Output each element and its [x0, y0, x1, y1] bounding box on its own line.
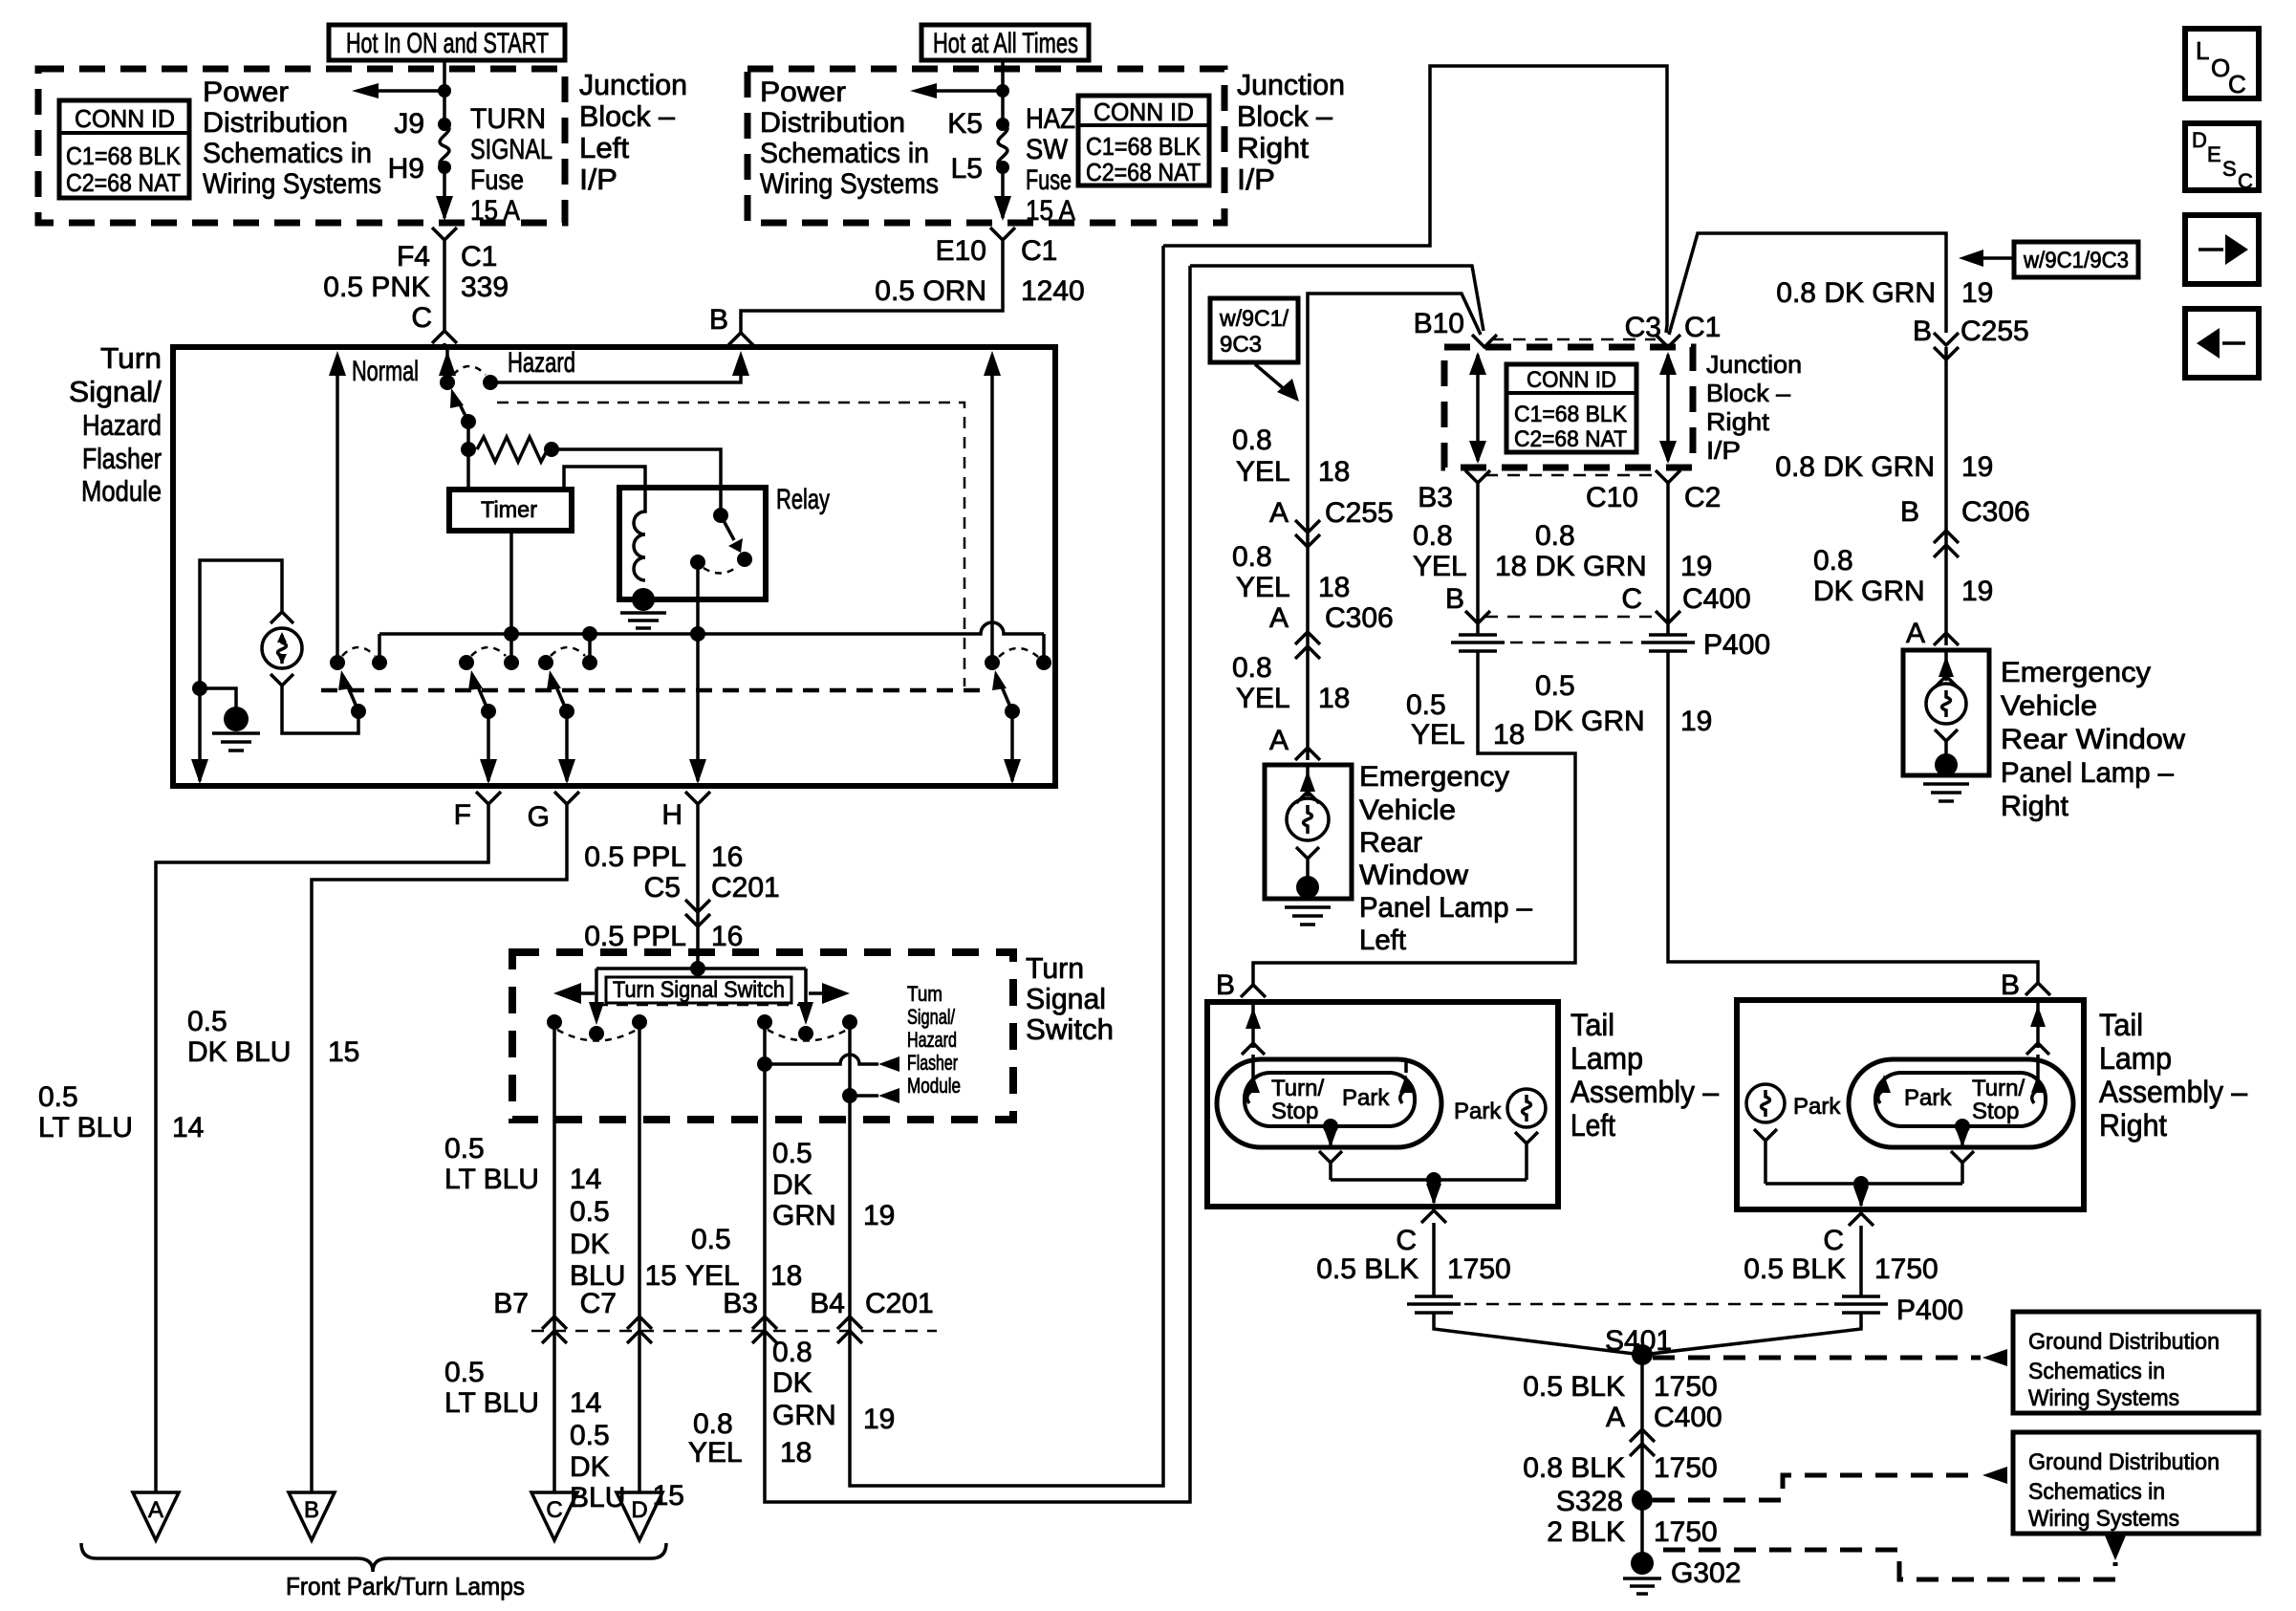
CONN ID table (right junction block) [1078, 96, 1209, 186]
left direction arrow [553, 983, 581, 1004]
connector C201 chevrons wire B3 [752, 1317, 777, 1343]
turn switch right: contact B3 [757, 1014, 772, 1030]
svg-text:15 A: 15 A [470, 195, 520, 227]
svg-text:Right: Right [2099, 1108, 2167, 1143]
splice S328 [1556, 1486, 1653, 1517]
svg-text:C: C [2238, 169, 2253, 193]
svg-text:YEL: YEL [1236, 572, 1290, 603]
svg-text:Fuse: Fuse [470, 164, 524, 196]
svg-text:Wiring Systems: Wiring Systems [760, 168, 939, 200]
svg-text:Left: Left [1359, 925, 1407, 956]
svg-text:18: 18 [1495, 551, 1527, 582]
fuse output wire with arrow at block edge [994, 167, 1011, 221]
note "Power Distribution Schematics in Wiring Systems" (right) [760, 76, 939, 200]
svg-text:Turn: Turn [100, 341, 162, 375]
switch 3 pole [538, 655, 553, 670]
tail left park bulb [1454, 1089, 1546, 1180]
connector triangle C [531, 1492, 577, 1540]
connector C306 chevrons (ev right) [1934, 531, 1959, 557]
svg-text:19: 19 [863, 1404, 895, 1435]
svg-text:S328: S328 [1556, 1486, 1623, 1517]
svg-text:B10: B10 [1414, 308, 1464, 339]
svg-text:0.5 PNK: 0.5 PNK [323, 272, 430, 303]
stub to flasher module (yel) [757, 1055, 899, 1072]
grommet P400 right (grn) [1641, 635, 1695, 651]
svg-text:0.8: 0.8 [772, 1337, 812, 1368]
wire tail right to pin C [1853, 1184, 1869, 1208]
svg-text:C1: C1 [1684, 312, 1721, 343]
label "Tum Signal/ Hazard Flasher Module" [907, 982, 961, 1098]
svg-text:DK: DK [772, 1367, 812, 1399]
tail left feed into bulb [1242, 1002, 1265, 1086]
svg-text:Distribution: Distribution [203, 107, 348, 139]
label 0.5 LT BLU 14 (below C201) [444, 1357, 601, 1419]
fuse output wire with arrow at block edge [436, 167, 453, 221]
svg-text:C: C [2228, 70, 2246, 98]
connector C201 dashed line [531, 1330, 937, 1333]
connector C5/C201 chevrons [685, 900, 710, 926]
svg-text:339: 339 [461, 272, 509, 303]
chevron tail right pin C [1849, 1213, 1874, 1226]
wire B3 0.8 YEL 18 (rear) [765, 266, 1190, 1502]
indicator lamp [262, 612, 302, 686]
dashed arc switch 1 [342, 647, 375, 656]
wire yel grommet to tail lamp left pin B [1253, 651, 1575, 985]
label Tail Lamp Assembly - Right [2099, 1008, 2247, 1143]
svg-text:0.8: 0.8 [1535, 520, 1575, 552]
svg-text:C5: C5 [644, 872, 681, 903]
svg-text:Flasher: Flasher [82, 442, 162, 475]
svg-text:1750: 1750 [1654, 1371, 1718, 1403]
indicator lamp feed wire [200, 560, 282, 781]
svg-text:16: 16 [711, 841, 743, 873]
svg-text:9C3: 9C3 [1220, 332, 1262, 358]
svg-text:F: F [454, 799, 471, 831]
svg-text:0.8: 0.8 [1232, 652, 1272, 684]
dashed reference G302 to ground distribution [1663, 1550, 2115, 1579]
svg-text:Rear: Rear [1359, 827, 1422, 859]
svg-text:Ground Distribution: Ground Distribution [2028, 1449, 2220, 1475]
junction block right I/P (top) dashed box [747, 69, 1224, 223]
switch arm from pivot to timer branch [450, 388, 476, 429]
svg-text:Stop: Stop [1972, 1099, 2019, 1124]
ev left lamp ground [1285, 876, 1331, 925]
svg-text:F4: F4 [397, 241, 430, 272]
label 2 BLK 1750 [1547, 1516, 1717, 1548]
ev right lamp bulb [1926, 650, 1966, 765]
wire ev right down to lamp [1944, 347, 1948, 645]
label Emergency Vehicle Rear Window Panel Lamp - Left [1359, 761, 1532, 956]
internal wire C1-C2 [1659, 352, 1677, 464]
svg-text:J9: J9 [394, 108, 424, 140]
label A C306 [1269, 602, 1394, 634]
connector C201 row labels B7 C7 B3 B4 C201 [493, 1288, 933, 1319]
svg-text:P400: P400 [1703, 629, 1770, 661]
connector dashed line C400 [1485, 616, 1656, 619]
label C5 C201 [644, 872, 780, 903]
ev right lamp ground [1923, 753, 1969, 801]
wire tail left to pin C [1426, 1180, 1441, 1205]
svg-text:Switch: Switch [1026, 1012, 1114, 1046]
svg-text:C1=68 BLK: C1=68 BLK [1086, 132, 1202, 161]
svg-text:B3: B3 [1418, 482, 1453, 513]
svg-text:YEL: YEL [688, 1437, 743, 1469]
svg-text:0.8 DK GRN: 0.8 DK GRN [1775, 451, 1935, 483]
svg-text:E10: E10 [936, 235, 986, 267]
svg-text:Rear Window: Rear Window [2001, 724, 2185, 755]
fuse "HAZ SW Fuse 15 A" K5/L5 [947, 103, 1075, 227]
svg-text:Right: Right [2001, 791, 2069, 822]
connector chevron below right junction block [990, 228, 1015, 240]
node bus at timer output [504, 626, 519, 642]
svg-text:15: 15 [328, 1036, 359, 1068]
node H feed inside switch [690, 961, 705, 976]
svg-text:H: H [661, 799, 682, 831]
svg-text:Emergency: Emergency [2001, 657, 2151, 688]
tail right dual filament bulb [1849, 1059, 2073, 1147]
wire C2 to grommet [1666, 483, 1670, 635]
label 0.8 DK GRN 19 (ev right mid) [1775, 451, 1993, 483]
dashed arc turn switch left [557, 1030, 637, 1041]
label 0.5 PPL 16 (above C201) [584, 841, 743, 873]
relay switch arm [721, 515, 752, 567]
wire from Hot at All Times into junction block [1001, 60, 1005, 122]
svg-text:A: A [1269, 725, 1289, 756]
svg-text:A: A [1906, 618, 1925, 649]
svg-text:C2=68 NAT: C2=68 NAT [1086, 158, 1201, 186]
label 0.8 YEL 18 (ev left, above C255) [1232, 425, 1350, 488]
annotation box w/9C1/9C3 (left) [1210, 298, 1299, 402]
svg-text:CONN ID: CONN ID [1094, 98, 1194, 126]
svg-text:Junction: Junction [1706, 350, 1802, 379]
label 0.5 BLK 1750 (tail right) [1744, 1253, 1939, 1285]
turn switch left: contact D [632, 1014, 647, 1030]
svg-text:Schematics in: Schematics in [2028, 1359, 2165, 1384]
svg-text:Tum: Tum [907, 982, 942, 1006]
relay box [619, 488, 766, 599]
svg-text:Turn/: Turn/ [1972, 1076, 2025, 1101]
chevron ev right pin A [1934, 633, 1959, 645]
svg-text:0.5: 0.5 [570, 1196, 610, 1228]
connector chevron below left junction block [432, 228, 457, 240]
svg-text:Park: Park [1793, 1094, 1841, 1120]
svg-text:Ground Distribution: Ground Distribution [2028, 1329, 2220, 1355]
svg-text:Junction: Junction [1237, 68, 1345, 101]
svg-text:0.5: 0.5 [38, 1081, 78, 1113]
svg-text:G302: G302 [1671, 1557, 1741, 1589]
switch 1 arm [338, 670, 366, 719]
svg-text:I/P: I/P [1706, 436, 1741, 465]
svg-text:A: A [1269, 602, 1289, 634]
svg-text:D: D [631, 1497, 647, 1523]
emergency vehicle rear window panel lamp left box [1265, 765, 1352, 899]
svg-text:0.5: 0.5 [772, 1138, 812, 1169]
wire ev lamp right branch from C1 [1669, 233, 1946, 335]
svg-text:C: C [546, 1497, 562, 1523]
svg-text:C: C [1823, 1225, 1844, 1256]
svg-text:LT BLU: LT BLU [38, 1112, 133, 1143]
svg-text:Assembly –: Assembly – [1570, 1075, 1719, 1109]
label B C255 (ev right) [1913, 316, 2029, 347]
dashed line between grommets [1510, 642, 1638, 644]
switch 3 arm [547, 670, 574, 719]
junction block left I/P dashed box [38, 69, 565, 223]
svg-text:Hazard: Hazard [82, 408, 162, 442]
svg-text:GRN: GRN [772, 1200, 836, 1231]
label 0.5 YEL 18 (above C201, wire B3) [685, 1224, 802, 1292]
svg-text:19: 19 [1680, 706, 1712, 737]
dashed arc hazard relay switch [999, 648, 1038, 657]
label B C306 (ev right) [1900, 496, 2030, 528]
connector C201 chevrons wire C [542, 1317, 567, 1343]
svg-text:Module: Module [907, 1074, 961, 1098]
svg-text:B: B [304, 1497, 319, 1523]
svg-text:B: B [709, 304, 728, 336]
wire indicator lamp to switch 1 arm [282, 686, 358, 733]
svg-text:D: D [2192, 128, 2207, 152]
chevron B3 [1465, 470, 1490, 483]
svg-text:Park: Park [1904, 1085, 1952, 1111]
right switch feed stub with arrow [798, 969, 813, 1025]
svg-text:Park: Park [1342, 1085, 1390, 1111]
fuse "TURN SIGNAL Fuse 15 A" J9/H9 [388, 103, 552, 227]
svg-text:Window: Window [1359, 860, 1468, 891]
label 0.5 DK GRN 19 (above C201, wire B4) [772, 1138, 895, 1231]
relay switch pole [690, 555, 705, 570]
svg-text:Hot In ON and START: Hot In ON and START [346, 28, 549, 59]
grommet P400 (tail right) [1834, 1296, 1888, 1313]
svg-text:Signal/: Signal/ [69, 375, 162, 408]
svg-text:0.5 PPL: 0.5 PPL [584, 841, 686, 873]
svg-text:Turn: Turn [1026, 951, 1084, 985]
svg-text:Park: Park [1454, 1099, 1502, 1124]
svg-text:YEL: YEL [1236, 683, 1290, 714]
label 0.8 YEL 18 B [1413, 520, 1527, 615]
ev left lamp bulb [1287, 765, 1329, 887]
label 0.5 DK GRN 19 [1533, 670, 1712, 737]
linkage dashed (bottom) [321, 688, 988, 693]
svg-text:G: G [528, 801, 550, 833]
wire switch 2 arm to module pin F [480, 711, 497, 784]
svg-text:16: 16 [711, 921, 743, 952]
CONN ID table (left junction block) [59, 100, 189, 198]
svg-text:Stop: Stop [1271, 1099, 1318, 1124]
junction block right I/P dashed box (middle) [1444, 347, 1693, 468]
svg-text:LT BLU: LT BLU [444, 1164, 539, 1195]
flasher bus wire [379, 622, 1044, 634]
ground distribution schematics box (upper) [2013, 1312, 2259, 1413]
svg-text:0.8: 0.8 [693, 1408, 733, 1440]
svg-text:Schematics in: Schematics in [203, 138, 372, 169]
wire normal feed [329, 351, 346, 663]
svg-text:0.5: 0.5 [691, 1224, 731, 1255]
svg-text:Turn/: Turn/ [1271, 1076, 1324, 1101]
svg-text:Panel Lamp –: Panel Lamp – [1359, 892, 1532, 924]
label A C255 [1269, 497, 1394, 529]
connector C400 chevrons [1630, 1429, 1655, 1456]
wire tail right grommet to S401 [1642, 1313, 1861, 1355]
chevron C/C400 right [1656, 611, 1680, 623]
ground G302 [1623, 1552, 1741, 1594]
svg-text:DK: DK [570, 1451, 610, 1483]
svg-text:P400: P400 [1896, 1295, 1963, 1326]
wire F to front lamps connector A [156, 804, 488, 1492]
label 0.5 DK BLU 15 (above C201, wire D) [570, 1196, 677, 1292]
turn switch right: contact B4 [842, 1014, 857, 1030]
connector C201 chevrons wire D [627, 1317, 652, 1343]
tail right bulb common [1951, 1119, 1974, 1184]
internal wire B10-B3 [1469, 352, 1486, 464]
turn switch left: pole [589, 1026, 604, 1041]
svg-text:0.5: 0.5 [444, 1357, 485, 1388]
linkage dashed (top) [497, 403, 964, 686]
wire relay pole to module pin H [689, 562, 706, 784]
dashed line between tail grommets [1464, 1303, 1830, 1306]
grommet P400 left (yel) [1451, 635, 1505, 651]
label 0.8 BLK 1750 [1523, 1452, 1718, 1484]
hazard switch pivot node [440, 375, 455, 390]
wire ev left: connector C255 [1295, 520, 1320, 547]
switch 3 fixed contact [582, 655, 597, 670]
svg-text:Schematics in: Schematics in [760, 138, 929, 169]
tail lamp assembly left box [1207, 1002, 1558, 1207]
label A C400 [1606, 1402, 1722, 1433]
svg-text:18: 18 [780, 1437, 812, 1469]
dashed arc switch 3 [551, 647, 585, 656]
dashed arc hazard switch [453, 366, 486, 375]
node resistor left [461, 442, 476, 457]
svg-text:C1: C1 [1021, 235, 1057, 267]
dashed arc relay switch [704, 566, 738, 574]
svg-text:Wiring Systems: Wiring Systems [203, 168, 381, 200]
module pin H [661, 792, 710, 831]
label Emergency Vehicle Rear Window Panel Lamp - Right [2001, 657, 2185, 822]
svg-text:C: C [411, 302, 432, 334]
svg-text:Wiring Systems: Wiring Systems [2028, 1506, 2179, 1532]
svg-text:C306: C306 [1961, 496, 2030, 528]
label 0.5 BLK 1750 (below S401) [1523, 1371, 1718, 1403]
svg-text:Distribution: Distribution [760, 107, 905, 139]
label 0.5 DK BLU 15 [187, 1006, 359, 1068]
connector C201 chevrons wire B4 [837, 1317, 862, 1343]
switch 1 (indicator) pole [330, 655, 345, 670]
svg-text:C2=68 NAT: C2=68 NAT [1514, 426, 1627, 452]
svg-text:Hot at All Times: Hot at All Times [933, 28, 1078, 59]
label 0.8 DK GRN 19 (below C201) [772, 1337, 895, 1435]
module pin G [528, 792, 579, 833]
wire switch 3 arm to module pin G [558, 711, 575, 784]
relay coil ground [620, 588, 666, 628]
svg-text:0.5 BLK: 0.5 BLK [1744, 1253, 1846, 1285]
CONN ID table (junction block right middle) [1506, 364, 1636, 452]
tail right park bulb [1746, 1084, 1841, 1184]
svg-text:TURN: TURN [470, 103, 546, 135]
svg-text:L5: L5 [951, 153, 983, 185]
connector triangle D [617, 1492, 662, 1540]
svg-text:SIGNAL: SIGNAL [470, 134, 552, 165]
stub bus to switch 1 fixed [378, 634, 381, 663]
svg-text:C: C [1621, 583, 1642, 615]
dashed reference S328 to ground distribution [1653, 1475, 1981, 1500]
svg-text:18: 18 [1493, 719, 1525, 751]
svg-text:0.5: 0.5 [1535, 670, 1575, 702]
label 0.5 LT BLU 14 (above C201, wire C) [444, 1133, 601, 1195]
svg-text:YEL: YEL [1411, 719, 1465, 751]
svg-text:C400: C400 [1654, 1402, 1722, 1433]
svg-text:0.8: 0.8 [1813, 545, 1853, 577]
svg-text:L: L [2196, 36, 2209, 65]
svg-text:Module: Module [81, 474, 162, 508]
svg-text:Right: Right [1706, 407, 1770, 436]
svg-text:Vehicle: Vehicle [2001, 690, 2097, 722]
svg-text:DK BLU: DK BLU [187, 1036, 291, 1068]
note "Power Distribution Schematics in Wiring Systems" (left) [203, 76, 381, 200]
module pin F [454, 792, 501, 831]
svg-text:B: B [1445, 583, 1464, 615]
svg-text:0.5 PPL: 0.5 PPL [584, 921, 686, 952]
chevron C3/C1 [1656, 335, 1680, 347]
svg-text:E: E [2207, 142, 2221, 166]
label 0.5 BLK 1750 (tail left) [1316, 1253, 1511, 1285]
svg-text:BLU: BLU [570, 1482, 625, 1513]
svg-text:C201: C201 [711, 872, 780, 903]
splice S401 [1605, 1325, 1672, 1365]
svg-text:0.5: 0.5 [1406, 689, 1446, 721]
dashed arc turn switch right [768, 1030, 847, 1041]
wire dk grn loop to junction block C1 [1163, 66, 1667, 333]
node H wire on bus [690, 626, 705, 642]
svg-text:Panel Lamp –: Panel Lamp – [2001, 757, 2174, 789]
node bus at third switch [582, 626, 597, 642]
svg-text:C1: C1 [461, 241, 497, 272]
arrow to power distribution (right) [910, 83, 1009, 98]
wire F4/C1 0.5 PNK 339 [443, 240, 446, 331]
right arrow box [2185, 215, 2259, 284]
wire B4 0.8 DK GRN 19 (rear) [850, 246, 1163, 1486]
svg-text:Left: Left [1570, 1108, 1615, 1143]
wire ev lamp left branch from B10 [1308, 294, 1481, 760]
hazard relay switch arm [992, 670, 1020, 719]
svg-text:Emergency: Emergency [1359, 761, 1509, 793]
svg-text:B4: B4 [810, 1288, 845, 1319]
svg-text:CONN ID: CONN ID [75, 104, 175, 133]
svg-text:19: 19 [1961, 277, 1993, 309]
connector dashed line B10-C3 [1491, 338, 1656, 341]
wire feed rail inside turn signal switch [596, 967, 806, 970]
svg-text:DK GRN: DK GRN [1813, 576, 1925, 607]
turn switch left: contact C [547, 1014, 562, 1030]
wire H 0.5 PPL 16 to turn signal switch [696, 804, 700, 969]
label 0.8 DK GRN 19 C C400 [1535, 520, 1751, 615]
svg-text:Right: Right [1237, 131, 1309, 164]
svg-text:18: 18 [1318, 683, 1350, 714]
svg-text:18: 18 [1318, 572, 1350, 603]
switch 2 fixed contact [504, 655, 519, 670]
svg-text:H9: H9 [388, 153, 424, 185]
svg-text:B: B [1913, 316, 1932, 347]
svg-text:w/9C1/9C3: w/9C1/9C3 [2023, 248, 2129, 273]
left switch feed stub with arrow [589, 969, 604, 1025]
chevron tail lamp right pin B [2025, 983, 2050, 995]
wire G to front lamps connector B [312, 804, 567, 1492]
label 0.5 DK BLU 15 (below C201) [570, 1420, 684, 1513]
svg-text:w/9C1/: w/9C1/ [1219, 306, 1289, 332]
label 0.8 YEL 18 (ev left, above C306) [1232, 541, 1350, 603]
svg-text:C10: C10 [1586, 482, 1638, 513]
chevron B10 [1472, 335, 1497, 347]
svg-text:B3: B3 [723, 1288, 758, 1319]
svg-text:2 BLK: 2 BLK [1547, 1516, 1625, 1548]
